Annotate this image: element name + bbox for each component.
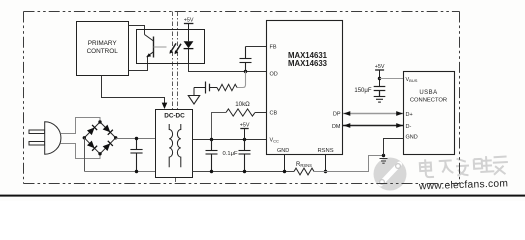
- wire IC GND pin: [284, 155, 286, 172]
- diode D3 (left-bottom edge): [87, 140, 97, 150]
- svg-text:RRSNS: RRSNS: [296, 162, 312, 168]
- DP wire arrows: [343, 113, 404, 115]
- svg-text:10kΩ: 10kΩ: [235, 101, 250, 108]
- svg-text:OD: OD: [270, 71, 278, 77]
- diode D4 (bottom-right edge): [103, 141, 113, 151]
- node 0.1uF gnd: [243, 170, 246, 173]
- svg-text:FB: FB: [270, 45, 277, 51]
- opto light slashes: [170, 43, 181, 53]
- FB feedback capacitor: [240, 47, 252, 72]
- resistor 10k: [226, 109, 255, 116]
- primary ground rail: [85, 171, 156, 173]
- svg-text:MAX14633: MAX14633: [288, 59, 328, 68]
- wire primary control to DC-DC (feedback, arrow into DC-DC): [102, 76, 165, 104]
- node bridge DC plus: [114, 136, 117, 139]
- svg-text:USBA: USBA: [419, 90, 437, 96]
- DM wire arrows: [343, 125, 404, 127]
- node VBUS junction: [378, 77, 381, 80]
- svg-text:+5V: +5V: [375, 64, 385, 70]
- svg-text:PRIMARY: PRIMARY: [88, 40, 118, 47]
- wire IC RSNS pin: [325, 155, 327, 172]
- node OD junction: [244, 70, 247, 73]
- svg-text:CB: CB: [270, 110, 278, 116]
- snubber resistor: [217, 84, 237, 90]
- svg-text:VCC: VCC: [270, 137, 280, 143]
- wire bridge minus down to primary ground rail: [84, 138, 86, 172]
- wire USB GND: [384, 139, 404, 156]
- svg-text:D+: D+: [406, 112, 413, 118]
- wire 10k to +5V rail: [212, 113, 227, 140]
- optocoupler box: [137, 30, 205, 64]
- ground rail to USB gnd: [314, 156, 384, 172]
- opto LED: [188, 30, 190, 42]
- small ground symbol: [380, 159, 388, 164]
- +5V rail (secondary): [193, 139, 267, 141]
- wire bridge plus to DC-DC: [116, 138, 156, 140]
- node bridge AC bottom: [98, 152, 101, 155]
- diode D1 (left-top edge): [87, 125, 97, 135]
- node bridge DC minus: [83, 136, 86, 139]
- wire plug to bridge (bottom): [61, 144, 101, 159]
- node bridge AC top: [98, 120, 101, 123]
- capacitor C2: [206, 140, 218, 172]
- bridge rectifier diamond: [84, 122, 115, 154]
- AC plug: [29, 122, 61, 155]
- USB A connector box: [404, 72, 455, 155]
- wire cap to FB pin: [246, 46, 267, 48]
- wire opto emitter to primary control: [129, 57, 148, 71]
- svg-text:+5V: +5V: [184, 18, 194, 24]
- wire OD junction down to RC snubber: [237, 72, 246, 88]
- svg-text:VBUS: VBUS: [406, 77, 418, 83]
- watermark chinese text: [420, 155, 509, 179]
- diode D2 (top-right edge): [103, 125, 113, 135]
- opto transistor: [145, 35, 167, 58]
- IC MAX14631/MAX14633: [267, 21, 343, 155]
- transformer secondary winding: [177, 124, 180, 167]
- svg-text:www.elecfans.com: www.elecfans.com: [418, 178, 509, 192]
- wire plug to bridge (top): [61, 118, 101, 134]
- ground symbol (150uF): [374, 97, 386, 103]
- node C1 bottom: [135, 170, 138, 173]
- node C2 gnd: [210, 170, 213, 173]
- node rail-10k: [210, 138, 213, 141]
- wire 10k to CB pin: [255, 112, 267, 114]
- node rail +5V tap: [243, 138, 246, 141]
- svg-text:DC-DC: DC-DC: [164, 113, 185, 120]
- svg-text:CONNECTOR: CONNECTOR: [410, 98, 447, 104]
- wire LED cathode to OD: [189, 64, 267, 72]
- secondary ground rail: [193, 171, 295, 173]
- capacitor 0.1uF: [239, 140, 251, 172]
- svg-text:0.1μF: 0.1μF: [223, 151, 238, 157]
- node C1 top: [135, 137, 138, 140]
- svg-text:CONTROL: CONTROL: [87, 48, 119, 55]
- svg-text:D-: D-: [406, 124, 412, 130]
- DC-DC converter block: [156, 110, 193, 178]
- enclosure dash-dot border: [24, 12, 460, 184]
- svg-text:GND: GND: [277, 148, 289, 154]
- wire to VBUS pin: [380, 78, 404, 80]
- svg-text:150μF: 150μF: [354, 88, 371, 94]
- bulk capacitor C1: [130, 139, 142, 172]
- sense resistor RSNS: [294, 168, 314, 175]
- svg-text:GND: GND: [406, 135, 418, 141]
- wire primary control to opto collector: [129, 26, 145, 35]
- bottom black separator line: [0, 195, 525, 197]
- transformer primary winding: [169, 124, 172, 167]
- svg-text:DP: DP: [333, 112, 341, 118]
- capacitor 150uF: [374, 87, 386, 97]
- PRIMARY CONTROL block: [77, 22, 129, 76]
- svg-text:+5V: +5V: [240, 123, 250, 129]
- watermark logo: [374, 158, 407, 191]
- ground triangle (snubber): [188, 96, 199, 105]
- isolation barrier dash-dot lines: [173, 12, 178, 184]
- svg-text:RSNS: RSNS: [318, 148, 334, 154]
- snubber capacitor: [194, 82, 217, 96]
- svg-text:DM: DM: [332, 124, 341, 130]
